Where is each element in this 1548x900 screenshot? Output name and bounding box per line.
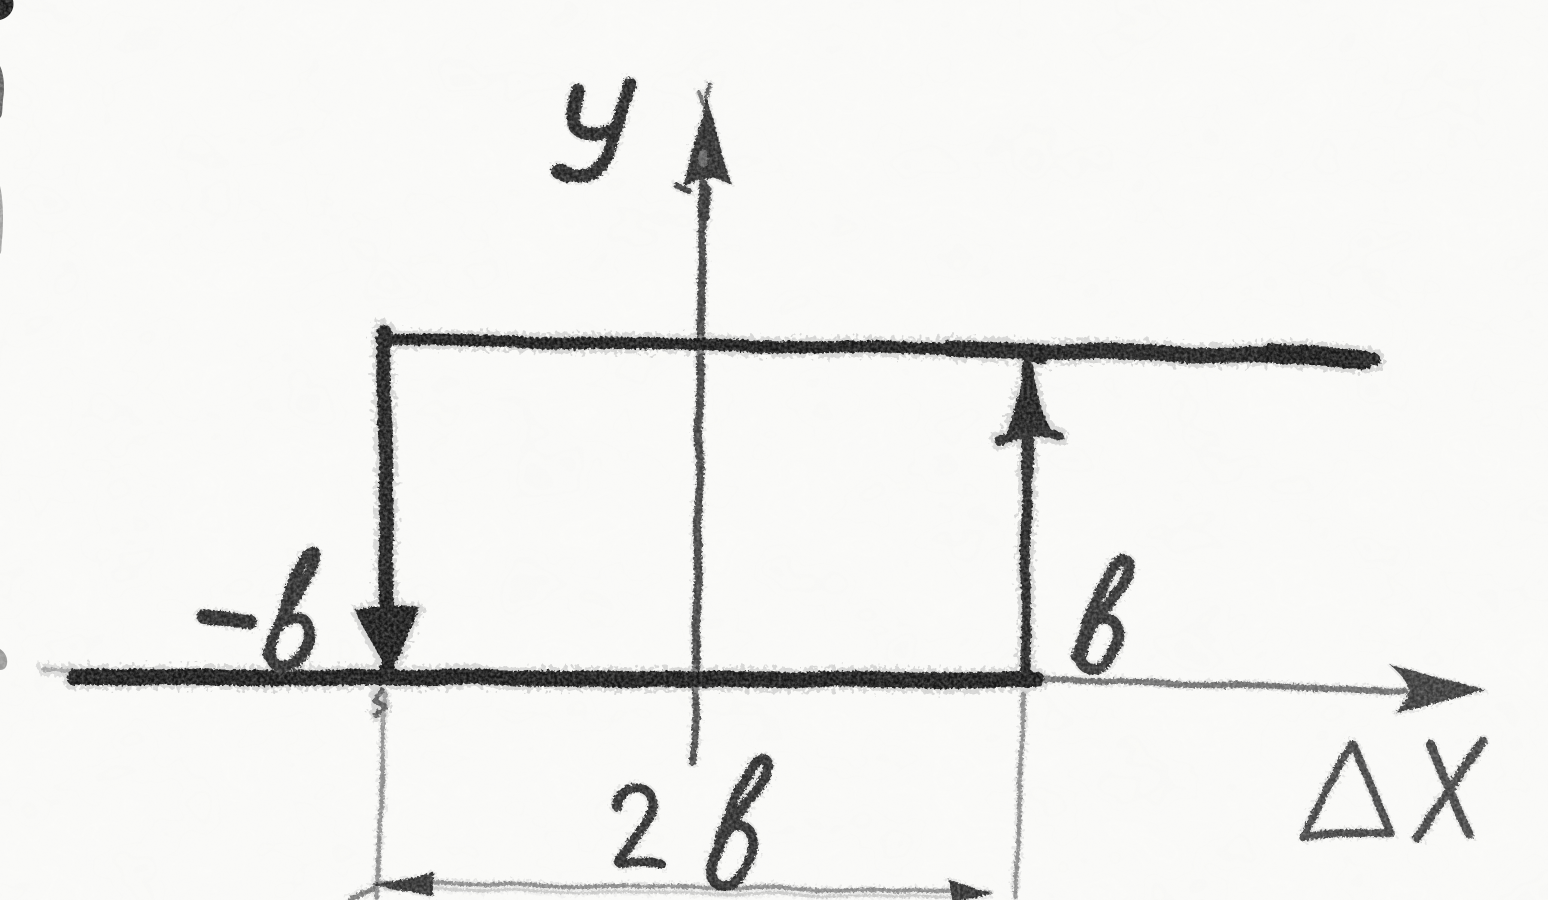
label delta of delta-x <box>1302 744 1390 836</box>
label X of delta-x stroke 2 <box>1416 742 1484 837</box>
up arrowhead at x=+b <box>1004 364 1053 436</box>
label X of delta-x stroke 1 <box>1429 743 1469 834</box>
scan artifact left edge upper <box>0 66 4 118</box>
y-axis arrowhead <box>683 97 731 187</box>
dimension arrowhead right <box>949 880 991 900</box>
corner junction blob at (b,0) <box>1016 669 1036 689</box>
dimension line ghost stroke <box>385 889 950 897</box>
label b of 2b <box>711 759 768 886</box>
scan artifact left edge mid <box>0 186 3 254</box>
x-axis arrowhead right <box>1390 665 1486 714</box>
relay loop: right vertical branch at x=+b <box>1026 360 1027 682</box>
dimension line 2b <box>376 883 989 892</box>
y-axis extension below x-axis <box>693 690 696 763</box>
relay loop: left vertical branch at x=-b <box>384 331 387 640</box>
label b right <box>1077 561 1130 668</box>
label 2 of 2b <box>616 787 661 864</box>
label y <box>573 90 614 134</box>
scan artifact left edge at axis <box>0 649 7 670</box>
dimension extension line left (x=-b) <box>377 693 385 898</box>
relay loop: top output line y=+b <box>381 339 1372 357</box>
x-axis heavy segment <box>74 677 1037 680</box>
scan artifact top-left corner <box>0 0 13 20</box>
x-axis faint lead-in at left edge <box>42 668 82 671</box>
dimension extension line right (x=+b) <box>1016 694 1023 898</box>
label -b letter b <box>268 553 317 666</box>
down arrowhead at x=-b <box>356 606 420 675</box>
x-axis thin segment right <box>1030 679 1405 691</box>
dimension arrowhead left <box>371 874 436 897</box>
label -b minus <box>204 617 249 621</box>
y-axis shaft <box>696 183 703 688</box>
